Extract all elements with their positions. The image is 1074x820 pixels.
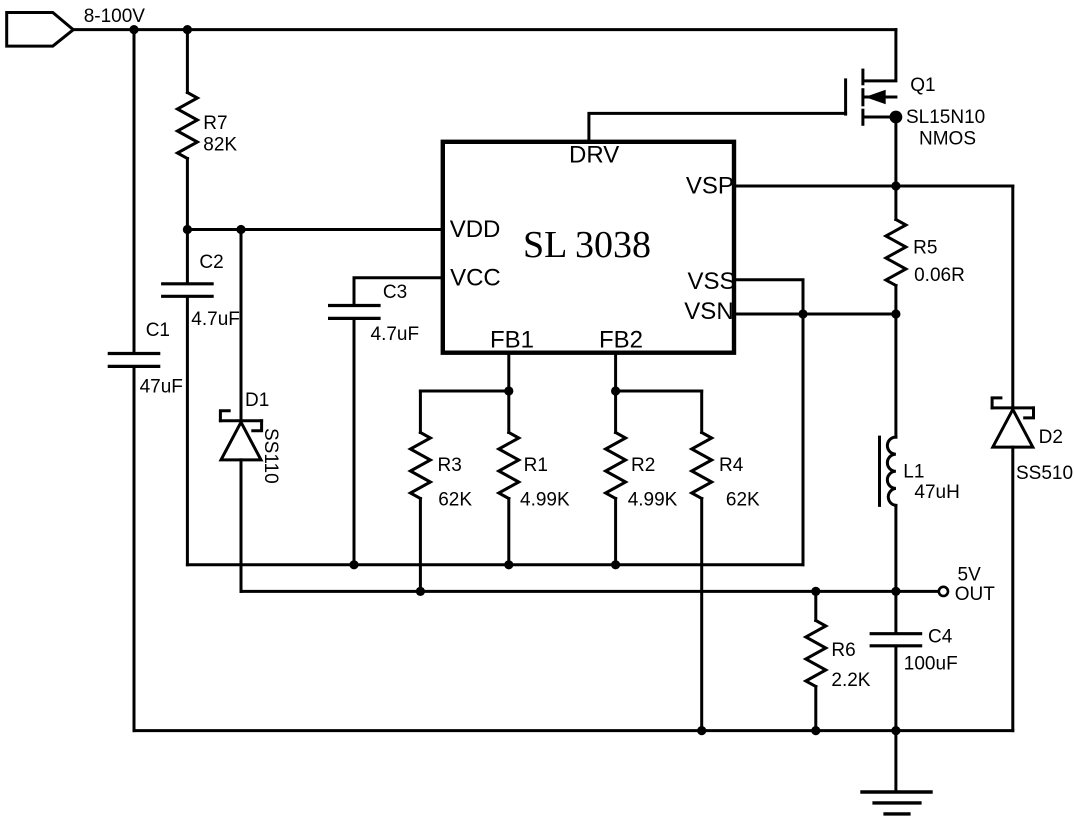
svg-text:VSN: VSN: [684, 298, 733, 325]
svg-text:R4: R4: [719, 455, 744, 476]
node VSN crossing VSS branch: [798, 309, 807, 318]
svg-text:5V: 5V: [958, 565, 982, 586]
resistor R1: [499, 433, 519, 499]
wire R6 bottom to ground rail: [814, 687, 817, 731]
svg-text:8-100V: 8-100V: [84, 6, 146, 27]
svg-text:SL 3038: SL 3038: [523, 224, 651, 266]
node VDD at D1 branch: [236, 225, 245, 234]
wire FB1 rail: [420, 390, 508, 393]
node rail1 R2: [611, 560, 620, 569]
svg-text:2.2K: 2.2K: [831, 670, 870, 691]
svg-text:R6: R6: [831, 640, 855, 661]
svg-text:C3: C3: [383, 282, 407, 303]
wire VDD net: [187, 228, 440, 231]
node VDD at R7 branch: [183, 225, 192, 234]
resistor R2: [606, 433, 626, 499]
svg-text:FB2: FB2: [599, 327, 643, 354]
node FB2: [611, 386, 620, 395]
svg-text:DRV: DRV: [569, 142, 619, 169]
diode D1 SS110: [220, 411, 261, 460]
wire R1 top: [507, 391, 510, 433]
inductor L1: [880, 437, 896, 505]
input connector 8-100V: [7, 13, 74, 47]
node ground R4: [697, 726, 706, 735]
svg-text:4.99K: 4.99K: [520, 490, 570, 511]
svg-text:47uH: 47uH: [914, 482, 959, 503]
node top C1 junction: [129, 25, 138, 34]
wire C4 bottom to ground rail: [894, 647, 897, 730]
terminal 5V OUT open circle: [939, 587, 948, 596]
capacitor C3: [330, 306, 379, 319]
wire VCC net: [354, 278, 441, 304]
svg-text:4.99K: 4.99K: [628, 490, 678, 511]
capacitor C4: [871, 634, 920, 646]
node ground C4: [891, 726, 900, 735]
wire R4 bottom to ground rail: [700, 499, 703, 731]
svg-text:47uF: 47uF: [140, 376, 183, 397]
svg-text:D1: D1: [245, 390, 269, 411]
wire D1 branch upper: [240, 230, 243, 421]
node output L1 C4: [891, 587, 900, 596]
pin wire FB1: [507, 355, 510, 391]
svg-text:L1: L1: [903, 462, 924, 483]
resistor R5: [886, 220, 906, 286]
resistor R3: [410, 433, 430, 499]
wire VSN net: [736, 313, 896, 316]
svg-text:Q1: Q1: [910, 75, 935, 96]
transistor Q1 SL15N10 NMOS: [846, 30, 903, 125]
wire DRV to gate: [589, 113, 846, 139]
wire R7 to VDD node: [186, 159, 189, 283]
svg-text:62K: 62K: [438, 490, 472, 511]
capacitor C2: [163, 284, 212, 297]
svg-text:4.7uF: 4.7uF: [371, 324, 420, 345]
wire C3 bottom to rail1: [353, 320, 356, 565]
svg-text:C1: C1: [146, 320, 170, 341]
svg-text:C4: C4: [928, 626, 953, 647]
diode D2 SS510: [992, 398, 1033, 447]
pin wire FB2: [614, 355, 617, 391]
wire C2 bottom to rail1: [186, 298, 189, 565]
wire R2 top: [614, 391, 617, 433]
wire D1 to output rail: [240, 460, 243, 592]
resistor R7: [177, 93, 197, 159]
wire R3 bottom to output rail: [419, 499, 422, 592]
wire R7 branch upper: [186, 30, 189, 93]
wire VSP to D2: [1011, 186, 1014, 409]
wire R3 top: [419, 391, 422, 433]
wire R6 top: [814, 591, 817, 620]
wire L1 to output rail: [894, 505, 897, 591]
node ground R6: [811, 726, 820, 735]
svg-text:SS510: SS510: [1016, 463, 1073, 484]
wire output rail 5V: [241, 590, 938, 593]
svg-text:FB1: FB1: [490, 327, 534, 354]
wire VSP net: [736, 185, 1013, 188]
svg-text:SL15N10: SL15N10: [906, 107, 985, 128]
wire R4 top: [700, 391, 703, 433]
wire R5 top: [894, 186, 897, 220]
svg-text:82K: 82K: [203, 135, 237, 156]
resistor R6: [806, 621, 826, 687]
wire VSS net: [736, 280, 803, 565]
wire Q1 source down to VSP node: [894, 117, 897, 186]
svg-text:VDD: VDD: [450, 216, 501, 243]
wire rail1 VSS return: [187, 563, 803, 566]
wire C4 top: [894, 591, 897, 632]
svg-text:R2: R2: [631, 455, 655, 476]
node top R7 junction: [183, 25, 192, 34]
capacitor C1: [109, 354, 158, 367]
ground symbol: [862, 731, 931, 814]
wire ground rail: [134, 729, 1013, 732]
wire C1 branch lower: [133, 368, 136, 731]
svg-text:62K: 62K: [726, 490, 760, 511]
svg-text:D2: D2: [1039, 427, 1063, 448]
wire R5 node to L1: [894, 314, 897, 437]
node output R6: [811, 587, 820, 596]
node VSP Q1 junction: [891, 181, 900, 190]
wire C1 branch upper: [133, 30, 136, 352]
svg-text:VCC: VCC: [450, 265, 501, 292]
svg-text:R7: R7: [203, 113, 227, 134]
IC U1 SL3038 box: [443, 142, 734, 353]
node rail1 C3: [349, 560, 358, 569]
svg-text:R5: R5: [913, 238, 937, 259]
svg-text:VSP: VSP: [686, 173, 734, 200]
svg-text:VSS: VSS: [688, 268, 736, 295]
svg-text:4.7uF: 4.7uF: [191, 309, 240, 330]
resistor R4: [692, 433, 712, 499]
wire R2 bottom to rail1: [614, 499, 617, 565]
wire FB2 rail: [616, 390, 702, 393]
wire top rail: [73, 28, 896, 31]
svg-text:OUT: OUT: [955, 584, 996, 605]
wire D2 anode to ground rail: [1011, 447, 1014, 730]
svg-text:NMOS: NMOS: [919, 129, 976, 150]
wire R5 bottom to VSN node: [894, 286, 897, 315]
svg-text:0.06R: 0.06R: [914, 265, 965, 286]
node VSN at R5 bottom: [891, 309, 900, 318]
svg-text:R3: R3: [438, 455, 462, 476]
node FB1: [504, 386, 513, 395]
svg-text:C2: C2: [199, 252, 223, 273]
svg-text:100uF: 100uF: [904, 653, 958, 674]
wire R1 bottom to rail1: [507, 499, 510, 565]
node rail1 R1: [504, 560, 513, 569]
node output R3: [416, 587, 425, 596]
svg-text:SS110: SS110: [260, 428, 281, 484]
svg-text:R1: R1: [524, 455, 548, 476]
